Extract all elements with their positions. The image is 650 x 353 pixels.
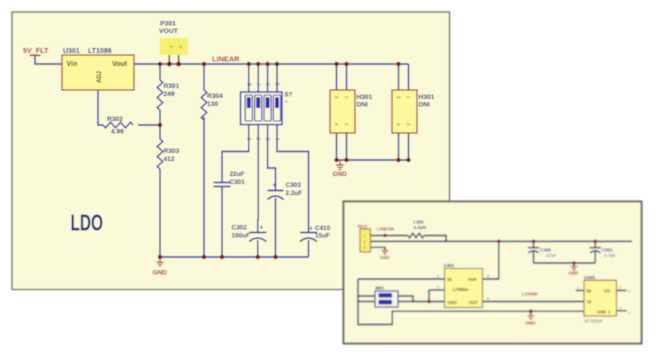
- svg-text:C302: C302: [602, 248, 613, 253]
- svg-text:R302: R302: [107, 116, 123, 123]
- svg-text:U403: U403: [584, 275, 595, 280]
- svg-text:L2V5W: L2V5W: [522, 292, 538, 297]
- svg-text:C303: C303: [286, 182, 302, 189]
- svg-text:R301: R301: [164, 83, 180, 90]
- svg-text:1: 1: [437, 275, 439, 279]
- svg-text:2.2uF: 2.2uF: [286, 190, 303, 197]
- svg-text:1: 1: [245, 138, 251, 141]
- svg-text:4.7uF: 4.7uF: [604, 253, 616, 258]
- svg-text:C410: C410: [315, 225, 331, 232]
- svg-text:22uF: 22uF: [230, 171, 245, 178]
- svg-text:4: 4: [274, 138, 280, 141]
- svg-text:C305: C305: [540, 248, 551, 253]
- svg-text:GND: GND: [333, 171, 348, 178]
- svg-text:IN: IN: [448, 277, 452, 282]
- svg-text:U301: U301: [444, 263, 455, 268]
- svg-text:DNI: DNI: [419, 102, 431, 109]
- svg-text:VOUT: VOUT: [159, 28, 179, 35]
- svg-text:U301: U301: [63, 48, 80, 55]
- svg-text:1: 1: [364, 235, 366, 239]
- svg-text:TB13: TB13: [357, 224, 368, 229]
- svg-text:VDP: VDP: [468, 277, 477, 282]
- svg-text:1: 1: [628, 290, 630, 294]
- svg-text:S?: S?: [285, 93, 293, 99]
- svg-text:2.4uH: 2.4uH: [414, 225, 427, 230]
- svg-text:GND: GND: [380, 255, 389, 260]
- svg-text:C301: C301: [230, 179, 246, 186]
- svg-text:R303: R303: [164, 148, 180, 155]
- svg-text:74: 74: [587, 300, 592, 305]
- svg-text:LTM80s: LTM80s: [453, 287, 469, 292]
- svg-text:SC75204: SC75204: [584, 319, 603, 324]
- svg-text:4.99: 4.99: [111, 129, 124, 136]
- svg-text:ADJ: ADJ: [97, 71, 103, 83]
- svg-text:2: 2: [364, 240, 366, 244]
- svg-text:130: 130: [207, 101, 218, 108]
- svg-text:H301: H301: [419, 94, 435, 101]
- svg-text:GND: GND: [448, 300, 457, 305]
- svg-text:7: 7: [255, 83, 261, 86]
- svg-text:6: 6: [264, 83, 270, 86]
- svg-text:+: +: [309, 226, 313, 233]
- svg-text:L301: L301: [414, 220, 425, 225]
- svg-text:15uF: 15uF: [315, 233, 330, 240]
- svg-text:P301: P301: [160, 21, 176, 28]
- svg-text:249: 249: [164, 91, 175, 98]
- svg-text:50: 50: [587, 289, 592, 294]
- svg-text:M01: M01: [376, 286, 385, 291]
- svg-text:GND: GND: [569, 271, 579, 276]
- svg-text:1: 1: [628, 311, 630, 315]
- svg-text:2: 2: [437, 286, 439, 290]
- svg-text:GND: GND: [153, 270, 168, 277]
- svg-text:3: 3: [264, 138, 270, 141]
- svg-text:5: 5: [487, 297, 489, 301]
- svg-text:3: 3: [364, 246, 366, 250]
- svg-text:LT1086: LT1086: [88, 48, 112, 55]
- svg-text:LINEAR: LINEAR: [377, 227, 395, 232]
- svg-text:DNI: DNI: [357, 102, 369, 109]
- svg-text:8: 8: [245, 83, 251, 86]
- svg-text:100uF: 100uF: [232, 233, 251, 240]
- svg-text:412: 412: [164, 156, 175, 163]
- svg-text:Vout: Vout: [112, 61, 128, 68]
- svg-text:VO: VO: [604, 289, 611, 294]
- svg-text:5: 5: [274, 83, 280, 86]
- svg-text:2: 2: [619, 286, 621, 290]
- svg-text:GND: GND: [526, 321, 536, 326]
- svg-text:2: 2: [255, 138, 261, 141]
- svg-text:47uF: 47uF: [546, 253, 557, 258]
- svg-text:LINEAR: LINEAR: [212, 55, 240, 64]
- svg-text:1: 1: [577, 286, 579, 290]
- svg-text:C302: C302: [232, 225, 248, 232]
- svg-text:8: 8: [487, 275, 489, 279]
- svg-text:+: +: [273, 182, 277, 189]
- svg-text:Vin: Vin: [67, 61, 78, 68]
- svg-text:H301: H301: [357, 94, 373, 101]
- svg-text:LDO: LDO: [71, 210, 104, 236]
- svg-text:R304: R304: [207, 93, 223, 100]
- svg-text:OUT: OUT: [469, 300, 478, 305]
- svg-text:USB: USB: [597, 310, 606, 315]
- svg-text:3: 3: [619, 307, 621, 311]
- svg-text:5V_FLT: 5V_FLT: [23, 46, 49, 55]
- svg-text:+: +: [260, 225, 264, 232]
